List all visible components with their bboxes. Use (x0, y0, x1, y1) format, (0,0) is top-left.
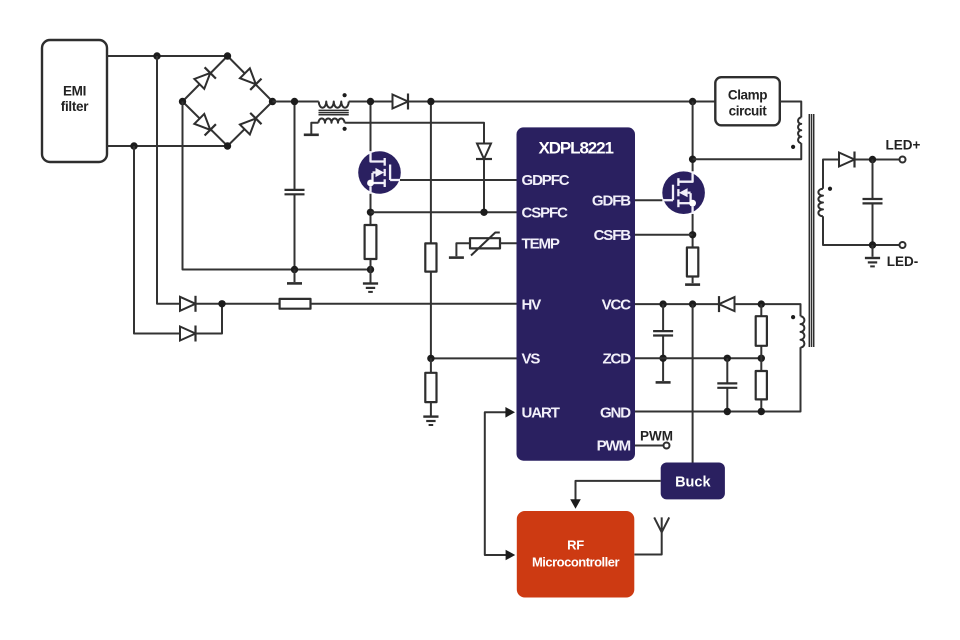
ground: TEMP single bar (449, 257, 464, 259)
svg-text:GDPFC: GDPFC (522, 172, 570, 189)
op-amp U1 XDPL8221 controller box (517, 127, 636, 460)
svg-text:filter: filter (61, 99, 90, 114)
node: VS junction (427, 355, 434, 362)
node: CSPFC at D5 (480, 209, 487, 216)
diode D5 aux rectifier (476, 144, 492, 160)
resistor R5 FB shunt (687, 248, 698, 277)
wire: bottom AC rail (107, 145, 228, 147)
resistor R2 VS upper (425, 243, 436, 271)
wire: VCC row (635, 304, 801, 316)
svg-text:LED-: LED- (887, 254, 919, 269)
ground: LED- 3-bar (865, 258, 880, 266)
node: aux winding phase dot (791, 315, 795, 319)
node: ZCD at R6/R7 (758, 355, 765, 362)
node: bridge right vertex (269, 98, 276, 105)
node: primary phase dot (791, 145, 795, 149)
wire: R5 to ground (692, 277, 694, 284)
capacitor C4 output (863, 199, 883, 203)
wire: UART loop (485, 412, 507, 555)
capacitor C1 bulk branch wire (294, 102, 296, 270)
antenna (654, 517, 669, 532)
wire: aux winding to CS diode (345, 123, 484, 144)
thermistor RT1 (470, 233, 500, 256)
svg-text:XDPL8221: XDPL8221 (539, 139, 614, 158)
wire: VS pin (431, 357, 517, 359)
resistor R4 HV series (280, 299, 311, 309)
wire: C2 chain (662, 304, 664, 381)
node: VCC at R6 (758, 300, 765, 307)
inductor L1 aux winding (319, 119, 345, 123)
wire: CSFB pin (635, 234, 693, 236)
node: CSFB junction (689, 231, 696, 238)
diode D7 HV upper (180, 296, 196, 312)
svg-text:GND: GND (600, 405, 631, 422)
svg-text:ZCD: ZCD (602, 351, 631, 368)
svg-text:TEMP: TEMP (522, 236, 560, 253)
wire: thermistor left lead to ground (456, 243, 470, 256)
inductor L1 PFC choke main winding (319, 102, 349, 108)
node: DC+ at R2 (427, 98, 434, 105)
node: LED- junction (869, 241, 876, 248)
arrow: UART into RF (506, 550, 516, 561)
arrow: Buck into RF (570, 499, 581, 509)
node: bridge left vertex (179, 98, 186, 105)
svg-text:circuit: circuit (729, 104, 768, 119)
transistor Q1 PFC MOSFET (358, 151, 401, 194)
ground: PFC source 3-bar (363, 284, 378, 292)
node: DC+ at C1 (291, 98, 298, 105)
wire: D8 up to HV node (196, 304, 223, 334)
wire: VS to R3 (430, 358, 432, 372)
resistor R7 lower divider (756, 371, 767, 412)
wire: GND row (635, 347, 801, 411)
inductor T1 primary winding (798, 118, 801, 144)
node: secondary phase dot (828, 187, 832, 191)
node: bridge top vertex (224, 52, 231, 59)
resistor R6 upper divider (756, 304, 767, 371)
wire: ZCD row (635, 357, 761, 359)
PFC choke core (319, 110, 349, 114)
wire: D9 to LED+ (856, 159, 900, 161)
node: bridge bottom vertex (224, 142, 231, 149)
svg-text:CSFB: CSFB (594, 227, 632, 244)
wire: primary bottom return (693, 143, 802, 159)
ground: VS 3-bar (423, 417, 438, 425)
transformer T1 core (809, 114, 813, 347)
svg-text:CSPFC: CSPFC (522, 205, 569, 222)
wire: DC- rail (183, 102, 371, 270)
transistor Q2 FB MOSFET (662, 171, 705, 214)
wire: secondary top (823, 160, 838, 189)
wire: top AC rail (107, 55, 228, 57)
node: GND at C3 (724, 408, 731, 415)
Buck box (661, 463, 725, 500)
inductor T1 secondary winding (818, 189, 823, 217)
svg-text:Buck: Buck (675, 475, 711, 491)
node: VCC at Buck branch (689, 300, 696, 307)
svg-text:GDFB: GDFB (592, 192, 631, 209)
node: DC- at R1 (367, 266, 374, 273)
node: ZCD at C3 (724, 355, 731, 362)
terminal: PWM open circle (664, 443, 670, 449)
wire: DC- ground stem (294, 270, 296, 283)
wire: Buck to RF (576, 481, 661, 500)
svg-text:HV: HV (522, 296, 542, 313)
capacitor C2 VCC (653, 331, 673, 335)
svg-text:VS: VS (522, 351, 541, 368)
capacitor C1 bulk (285, 190, 305, 194)
wire: Q2 drain branch (692, 102, 694, 172)
RF Microcontroller box (517, 511, 635, 598)
terminal: LED+ open circle (900, 157, 906, 163)
ground: FB shunt single bar (685, 284, 700, 286)
node: GND at R7 (758, 408, 765, 415)
arrow: UART into IC (505, 407, 515, 418)
diode D6 PFC boost (393, 94, 409, 110)
capacitor C3 ZCD (717, 383, 737, 387)
node: CSPFC at Q1 source (367, 209, 374, 216)
wire: R1 bottom ground stem (370, 270, 372, 283)
svg-text:EMI: EMI (63, 84, 86, 99)
node: HV diode junction (218, 300, 225, 307)
ground: choke aux (304, 134, 319, 136)
wire: CSPFC (371, 211, 517, 213)
resistor R1 shunt (365, 225, 377, 259)
wire: aux winding left to ground (311, 123, 318, 134)
node: DC+ at Q2 branch (689, 98, 696, 105)
wire: R1 to DC- (370, 259, 372, 270)
wire: secondary bottom (823, 216, 900, 245)
node: choke phase dot (343, 93, 347, 97)
diode D10 VCC (pointing left) (719, 296, 735, 312)
diode bridge D1 top-left (194, 67, 216, 89)
wire: DC+ rail to clamp (273, 101, 716, 103)
svg-text:VCC: VCC (602, 296, 632, 313)
wire: top rail branch down to HV diode (157, 56, 180, 304)
diode bridge D4 bottom-right (239, 113, 261, 135)
node: DC+ at Q1 (367, 98, 374, 105)
diode bridge D2 top-right (239, 68, 261, 90)
wire: Buck feed from VCC (692, 304, 694, 462)
wire: GDPFC (400, 179, 517, 181)
EMI filter box (42, 40, 107, 162)
wire: RF to antenna (634, 532, 661, 554)
node: primary return junction (689, 156, 696, 163)
inductor T1 aux winding (801, 316, 805, 347)
diode D9 output rectifier (839, 152, 855, 168)
node: top rail junction (153, 52, 160, 59)
wire: PWM stub (635, 445, 663, 447)
node: aux phase dot (343, 127, 347, 131)
ground: C2 single bar (656, 381, 671, 383)
node: ZCD at C2 chain (659, 355, 666, 362)
ground: DC- single bar (287, 282, 302, 284)
svg-text:UART: UART (522, 405, 560, 422)
wire: thermistor to TEMP pin (500, 242, 517, 244)
svg-text:LED+: LED+ (886, 138, 921, 153)
svg-text:Microcontroller: Microcontroller (532, 555, 620, 570)
diode D8 HV lower (180, 326, 196, 342)
wire: D5 to CSPFC (483, 160, 485, 213)
svg-text:Clamp: Clamp (728, 88, 767, 103)
wire: GDFB (635, 199, 662, 201)
wire: clamp to primary top (780, 102, 801, 118)
wire: output cap branch (872, 160, 874, 246)
diode bridge D3 bottom-left (194, 113, 216, 135)
node: VCC at C2 (659, 300, 666, 307)
svg-text:PWM: PWM (597, 438, 631, 455)
svg-text:RF: RF (567, 538, 584, 553)
node: DC- at C1 (291, 266, 298, 273)
wire: R2 branch from DC+ (430, 102, 432, 244)
wire: bottom rail branch down to HV diode (134, 146, 180, 334)
Clamp circuit box (715, 77, 780, 125)
svg-text:PWM: PWM (640, 429, 673, 444)
wire: C3 chain (726, 358, 728, 411)
wire: R2 to VS (430, 272, 432, 359)
wire: Q2 source down (692, 214, 694, 248)
terminal: LED- open circle (900, 242, 906, 248)
wire: LED- ground stem (872, 245, 874, 257)
wire: HV node to R4 (196, 303, 280, 305)
resistor R3 VS lower (425, 373, 436, 402)
wire: Q1 source down (370, 194, 372, 225)
wire: R4 to HV pin (311, 303, 517, 305)
node: bottom rail junction (130, 142, 137, 149)
wire: bridge diamond (183, 56, 273, 146)
wire: R3 to ground (430, 402, 432, 415)
wire: Q1 drain (370, 102, 372, 152)
node: LED+ junction (869, 156, 876, 163)
